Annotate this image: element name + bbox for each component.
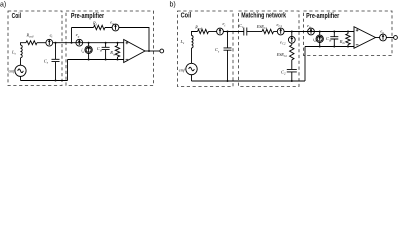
node preamp input (a) [71,42,73,44]
current noise source ia (a) [88,43,90,46]
wire inductor to resistor (a) [21,43,27,45]
wire en to terminal (b) [386,37,393,39]
noise source eC2 (b) [291,32,293,37]
capacitor Cin (a) [105,43,107,48]
node Cin bottom (b) [333,46,335,48]
node Cin junction top (a) [105,42,107,44]
noise source et (a) [46,39,53,46]
svg-text:emf: emf [179,67,186,72]
Coil box (b) [178,11,234,87]
capacitor Cin (b) [333,32,335,37]
resistor Rcoil (a) [26,41,37,45]
resistor ESRC2 (b) [290,45,294,60]
current noise source ia (b) [319,32,321,36]
node ia junction (b) [319,31,321,33]
output terminal (a) [160,49,164,53]
capacitor Cs (b) [227,32,229,48]
wire emf bottom (b) [191,75,193,81]
node Rin bottom (a) [117,59,119,61]
svg-text:Matching network: Matching network [241,13,286,20]
wire ESR to eC1 (b) [274,31,278,33]
node Rin junction top (b) [347,31,349,33]
svg-text:b): b) [170,2,176,9]
node Cs bottom (a) [55,80,57,82]
Pre-amplifier box (a) [66,11,154,86]
node Cs bottom (b) [227,80,229,82]
wire resistor to et (b) [209,31,217,33]
inductor Ls (b) [192,36,194,48]
ground riser (a) [67,60,69,81]
output wire (b) [376,37,380,39]
wire et to C1 (b) [223,31,243,33]
capacitor Cs (a) [55,43,57,60]
bottom rail (b) [192,80,306,82]
resistor Rin (a) [117,43,119,46]
node ia bottom (a) [88,59,90,61]
wire emf top to inductor (a) [20,58,22,66]
wire et to preamp input (a) [53,42,124,44]
svg-text:Coil: Coil [12,13,22,20]
capacitor C1 (b) [244,28,247,36]
Coil box (a) [8,11,62,86]
svg-text:a): a) [0,1,6,8]
wire ESRC2 to C2 (b) [291,60,293,70]
node shunt junction (b) [291,31,293,33]
node Cin junction top (b) [333,31,335,33]
resistor Rf (a) [94,25,106,29]
wire emf top to inductor (b) [191,48,193,63]
op-amp plus input mark (a) [126,42,129,45]
op-amp plus input mark (b) [356,29,359,32]
ground riser (b) [304,47,306,82]
op-amp minus input mark (a) [126,58,129,60]
op-amp minus input mark (b) [356,44,359,46]
node output junction (a) [148,50,150,52]
ground rail preamp (b) [305,46,354,48]
op-amp U2 (b) [354,27,376,49]
noise source ea (a) [76,39,83,46]
wire emf bottom (a) [20,76,22,80]
node Cs junction (a) [55,42,57,44]
resistor Rcoil (b) [198,29,209,33]
svg-text:Pre-amplifier: Pre-amplifier [306,13,339,20]
resistor ESRC1 (b) [262,29,274,33]
svg-text:Pre-amplifier: Pre-amplifier [71,13,104,20]
node ia bottom (b) [319,46,321,48]
Pre-amplifier box (b) [304,11,393,56]
node Rin bottom (b) [347,46,349,48]
noise source en (a) [112,24,119,31]
voltage source emf (a) [15,65,26,76]
node C2 bottom (b) [291,80,293,82]
svg-text:emf: emf [9,69,16,74]
noise source ea (b) [308,28,315,35]
feedback top wire (a) [72,28,150,51]
wire inductor to resistor (b) [192,32,198,36]
bottom rail (a) [21,80,68,82]
node ia junction (a) [88,42,90,44]
op-amp U1 (a) [124,40,145,63]
voltage source emf (b) [186,63,197,74]
noise source en (b) [380,34,387,41]
svg-text:Coil: Coil [181,12,192,19]
Matching network box (b) [239,11,300,87]
noise source eC1 (b) [277,28,284,35]
resistor Rin (b) [347,32,349,34]
inductor Ls (a) [21,45,23,58]
noise source et (b) [217,28,224,35]
capacitor C2 (b) [287,69,297,72]
output wire (a) [145,50,160,52]
wire eC1 to preamp (b) [284,31,354,33]
ground rail preamp (a) [68,59,124,61]
output terminal (b) [394,36,398,40]
node Rin junction top (a) [117,42,119,44]
wire eC2 to ESRC2 (b) [291,43,293,45]
wire C1 to ESR (b) [247,31,262,33]
wire resistor to noise source et (a) [37,42,46,44]
feedback riser left (a) [71,28,73,43]
node Cs junction (b) [227,31,229,33]
node Cin bottom (a) [105,59,107,61]
